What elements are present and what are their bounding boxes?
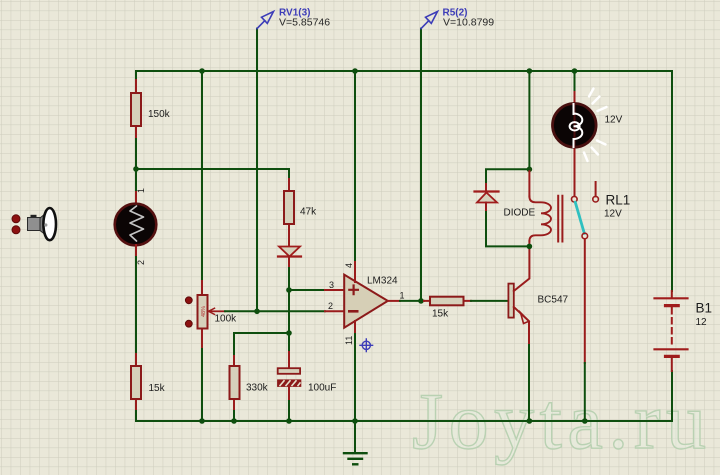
- svg-text:1: 1: [136, 188, 146, 193]
- lamp L1 12V: [553, 89, 607, 162]
- wire pin2 node to op-amp: [257, 310, 325, 312]
- ground: [344, 421, 367, 464]
- battery B1: [655, 291, 688, 371]
- svg-text:RL1: RL1: [606, 193, 631, 208]
- svg-text:V=10.8799: V=10.8799: [443, 17, 494, 29]
- node dot (529,169): [527, 167, 533, 173]
- bottom rail wire: [136, 420, 672, 422]
- probe RV1(3) wire: [256, 29, 258, 312]
- right rail wire (to battery): [671, 71, 673, 291]
- svg-text:330k: 330k: [246, 383, 269, 394]
- svg-text:15k: 15k: [432, 309, 449, 320]
- wire pot branch from rail: [201, 71, 203, 281]
- wire NO contact to bottom rail: [584, 239, 586, 363]
- svg-text:11: 11: [344, 336, 354, 345]
- node dot (257,311): [254, 309, 260, 315]
- wire pin 11 to rail: [354, 334, 356, 421]
- wire x136 top: [135, 71, 137, 80]
- relay contact pole (from lamp): [574, 148, 576, 196]
- node dot (289,333): [286, 330, 292, 336]
- svg-text:V=5.85746: V=5.85746: [279, 17, 330, 29]
- wire 330k to rail: [233, 411, 235, 421]
- svg-text:4: 4: [344, 263, 354, 268]
- op-amp pin 1 output: [388, 300, 400, 302]
- voltage probe R5(2): [421, 12, 438, 29]
- node dot (289,290): [286, 287, 292, 293]
- relay NC pin: [595, 182, 597, 196]
- wire 15k to bottom rail: [135, 411, 137, 421]
- op-amp pin 3: [325, 289, 344, 291]
- contact circle NO: [582, 233, 588, 239]
- node dot (202,421): [199, 418, 205, 424]
- resistor R3 47k: [284, 179, 294, 246]
- node dot (355,71): [352, 68, 358, 74]
- wire battery bottom to rail: [671, 371, 673, 421]
- wire cap node down: [288, 333, 290, 352]
- transistor Q1 BC547: [508, 247, 529, 345]
- wire node to collector: [528, 245, 530, 248]
- svg-text:12V: 12V: [604, 209, 622, 220]
- relay RL1 coil: [529, 196, 562, 242]
- wire node to 330k: [234, 333, 289, 356]
- wire cap to rail: [288, 401, 290, 421]
- wire 47k branch top: [288, 169, 290, 179]
- node dot (136,169): [133, 166, 139, 172]
- probe R5(2) wire: [420, 29, 422, 301]
- node dot (574.5,71): [572, 68, 578, 74]
- origin marker (blue crosshair): [360, 339, 373, 352]
- node dot (421,301): [418, 298, 424, 304]
- svg-text:100k: 100k: [215, 314, 238, 325]
- wire diode branch top: [486, 169, 529, 184]
- torch (light source icon): [28, 208, 57, 240]
- wire node to LDR: [135, 169, 137, 192]
- lamp pin top: [574, 92, 576, 103]
- node dot (529,71): [527, 68, 533, 74]
- op-amp pin 4 wire from rail: [354, 71, 356, 262]
- svg-text:BC547: BC547: [538, 295, 569, 306]
- wire relay branch from rail: [528, 71, 530, 169]
- op-amp pin 4: [354, 262, 356, 282]
- wire diode bottom: [486, 212, 529, 246]
- potentiometer RV1 100k: [198, 281, 226, 349]
- diode D2 (flyback): [475, 184, 499, 212]
- svg-text:DIODE: DIODE: [504, 208, 536, 219]
- op-amp pin 2: [325, 310, 344, 312]
- wire 15k to base: [471, 300, 508, 302]
- light rays: [584, 89, 607, 162]
- svg-text:47k: 47k: [300, 207, 317, 218]
- resistor R1 150k: [131, 80, 141, 139]
- svg-text:15k: 15k: [149, 383, 166, 394]
- node dot (529,421): [527, 418, 533, 424]
- wire y169 LDR node to 47k branch: [136, 168, 289, 170]
- pot terminal marker dots: [185, 297, 192, 304]
- wire pot bottom to rail: [201, 349, 203, 421]
- svg-text:12V: 12V: [605, 115, 623, 126]
- diode D1: [278, 247, 301, 269]
- svg-text:LM324: LM324: [367, 276, 398, 287]
- svg-text:100uF: 100uF: [308, 383, 336, 394]
- svg-text:1: 1: [400, 291, 405, 301]
- capacitor C1 100uF: [278, 352, 301, 401]
- svg-text:2: 2: [136, 260, 146, 265]
- top rail wire: [136, 70, 672, 72]
- resistor R5 15k: [424, 297, 471, 306]
- voltage probe RV1(3): [257, 12, 274, 29]
- LDR pin 1: [135, 192, 137, 204]
- torch icon red indicator dots: [12, 215, 20, 223]
- wire lamp from rail: [574, 71, 576, 92]
- node dot (289,421): [286, 418, 292, 424]
- op-amp U1 LM324: [344, 275, 388, 328]
- wire 150k to LDR node: [135, 139, 137, 169]
- node dot (355,421): [352, 418, 358, 424]
- wire wiper to pin2 node: [225, 310, 257, 312]
- wire emitter to rail: [528, 345, 530, 421]
- wire output to 15k: [400, 300, 424, 302]
- photoresistor LDR1: [115, 204, 157, 246]
- svg-text:48%: 48%: [201, 306, 207, 317]
- node dot (202,71): [199, 68, 205, 74]
- relay coil vertical link: [528, 169, 530, 196]
- node dot (584.8,421): [582, 418, 588, 424]
- node dot (529,246): [527, 244, 533, 250]
- wire LDR to 15k: [135, 257, 137, 354]
- wire pin3 node down to cap node: [288, 290, 290, 333]
- contact circle common: [572, 196, 578, 202]
- svg-text:B1: B1: [696, 301, 713, 316]
- svg-text:12: 12: [696, 317, 708, 328]
- resistor R4 330k: [230, 356, 240, 411]
- svg-text:150k: 150k: [148, 109, 171, 120]
- wire pin3 node to op-amp: [289, 289, 325, 291]
- svg-text:3: 3: [329, 280, 334, 290]
- svg-text:2: 2: [328, 301, 333, 311]
- LDR pin 2: [135, 245, 137, 257]
- wire diode to pin3 node: [288, 268, 290, 290]
- relay movable contact (closed, cyan): [575, 202, 584, 233]
- resistor R2 15k: [131, 354, 141, 411]
- contact circle NC: [593, 196, 599, 202]
- op-amp pin 11: [354, 321, 356, 334]
- node dot (234,421): [231, 418, 237, 424]
